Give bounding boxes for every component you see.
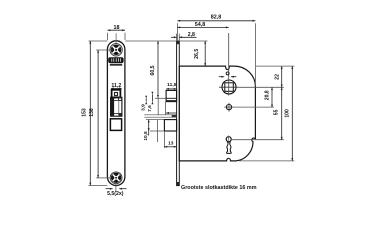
latch bevel line: [166, 97, 177, 99]
logo subtext bar: [110, 64, 122, 66]
dim 55 line: [281, 87, 283, 139]
dim 82.8 ext right: [254, 23, 256, 86]
ext line top screw center: [96, 49, 112, 51]
ext line latch bevel left: [155, 97, 166, 99]
ext line faceplate bottom left: [89, 185, 108, 187]
deadbolt ext top: [146, 119, 164, 121]
dim 3.9 line: [145, 96, 147, 104]
small circle hole: [226, 105, 231, 110]
svg-text:5,5(2x): 5,5(2x): [107, 191, 124, 197]
dim 2.8 line with outside arrows: [171, 36, 197, 38]
bottom screw outer circle: [110, 172, 122, 184]
top screw phillips cross: [109, 43, 123, 57]
bottom screw dark disc: [111, 173, 121, 183]
square nut hole: [112, 90, 121, 98]
dim 60.5 line: [157, 41, 159, 98]
tiny hole arrows: [219, 76, 237, 78]
top screw dark disc: [111, 45, 122, 56]
latch window top-right notch: [119, 98, 122, 101]
latch bolt side view: [166, 90, 177, 101]
dim 82.8 line: [177, 20, 255, 22]
faceplate side strip: [177, 41, 180, 186]
svg-text:7,6: 7,6: [147, 105, 153, 112]
svg-text:18: 18: [114, 25, 120, 31]
tiny hole on top: [226, 72, 229, 75]
deadbolt side view: [164, 120, 176, 131]
small circle h line: [224, 106, 233, 108]
ext vertical latch to aux left: [157, 98, 159, 114]
keyhole circle: [226, 137, 231, 142]
faceplate outline: [107, 41, 125, 186]
svg-text:26,5: 26,5: [194, 49, 200, 59]
top screw center: [114, 48, 118, 52]
latch bevel hatch: [167, 100, 177, 102]
dim 11.5 line: [166, 88, 177, 90]
dim 7.6 line: [151, 92, 153, 104]
logo slits: [112, 58, 121, 61]
deadbolt front ext line: [163, 131, 165, 148]
follower h center line: [219, 86, 238, 88]
dim 26.5 line: [204, 41, 206, 66]
keyhole slot: [227, 142, 232, 154]
svg-text:55: 55: [273, 109, 279, 115]
dim 153 line: [89, 41, 91, 186]
ext keyhole right: [232, 139, 284, 141]
svg-text:136: 136: [89, 108, 95, 117]
latch window inner line: [114, 99, 122, 101]
latch window: [111, 97, 122, 116]
svg-text:22: 22: [275, 74, 281, 80]
svg-text:82,8: 82,8: [211, 14, 222, 20]
case outline: [179, 66, 255, 161]
ext line bottom screw center: [96, 177, 110, 179]
svg-text:54,8: 54,8: [195, 22, 206, 28]
svg-text:2,8: 2,8: [188, 32, 195, 38]
ext case top right: [256, 65, 294, 67]
square nut inner: [115, 93, 118, 96]
bottom screw center line: [115, 184, 117, 192]
ext line faceplate top left: [89, 40, 108, 42]
aux bolt lines: [144, 114, 176, 116]
dim 2.8 ext lines: [177, 34, 180, 41]
dim 82.8 ext left: [176, 23, 178, 41]
top screw outer circle: [110, 44, 122, 56]
follower v center line: [228, 33, 230, 96]
dim 11.2 line: [111, 87, 122, 89]
follower circle: [222, 80, 236, 94]
dim 13 line: [164, 146, 176, 148]
small circle v line: [228, 103, 230, 112]
faceplate strip bottom cap: [176, 182, 179, 186]
dim 10.8 line: [148, 120, 150, 136]
aux bolt tip: [172, 115, 177, 117]
center line top: [115, 33, 117, 44]
ext case bottom right: [239, 160, 294, 162]
deadbolt ext bottom: [150, 130, 164, 132]
dim 54.8 line: [177, 26, 228, 28]
ext line faceplate top left of strip: [125, 40, 176, 42]
svg-text:3,9: 3,9: [141, 104, 147, 111]
ext vertical latch face to aux: [164, 102, 166, 115]
dim 18 ext lines: [108, 33, 126, 40]
svg-text:153: 153: [82, 108, 88, 117]
svg-text:13: 13: [168, 141, 174, 147]
svg-text:Grootste slotkastdikte 16 mm: Grootste slotkastdikte 16 mm: [181, 185, 257, 191]
ext line faceplate top to 26.5: [180, 40, 208, 42]
dim 18 line: [108, 29, 126, 31]
dim 10.8 ext vertical: [157, 120, 159, 142]
latch window bottom lip line: [114, 112, 122, 114]
dim 22 line: [281, 66, 283, 87]
aux bolt arrow: [166, 112, 177, 114]
dim 136 line: [97, 50, 99, 178]
ext small circle right: [234, 106, 274, 108]
logo badge: [108, 57, 123, 63]
follower square: [225, 83, 234, 92]
dim 100 line: [291, 66, 293, 161]
svg-text:10,8: 10,8: [143, 131, 149, 141]
latch window inner vertical: [118, 100, 120, 113]
ext follower center right: [238, 86, 284, 88]
deadbolt window: [110, 119, 121, 131]
dim 5.5(2x) arrows: [106, 188, 127, 190]
latch bolt edge dark bar: [111, 98, 114, 116]
bottom screw center: [114, 176, 118, 180]
dim 20.8 line: [271, 87, 273, 107]
faceplate strip top cap: [176, 41, 179, 44]
bottom screw phillips cross: [109, 171, 123, 185]
svg-text:11,5: 11,5: [167, 82, 177, 88]
svg-text:20,8: 20,8: [265, 90, 271, 100]
svg-text:100: 100: [285, 109, 291, 118]
svg-text:60,5: 60,5: [150, 65, 156, 75]
latch window bottom-right mark: [118, 114, 121, 116]
